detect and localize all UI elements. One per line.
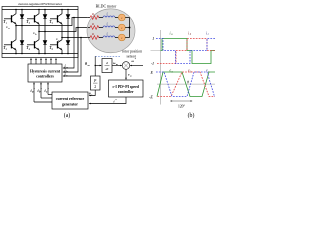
- wire T5 emitter to node c: [61, 24, 63, 38]
- svg-text:c: c: [208, 33, 210, 36]
- transistor T4: [27, 40, 39, 50]
- svg-text:R: R: [91, 22, 94, 26]
- diode D3: [44, 10, 46, 32]
- svg-text:m: m: [88, 64, 90, 67]
- svg-text:*: *: [135, 57, 137, 61]
- inverter enclosure box: [2, 7, 78, 58]
- wire to star point: [125, 17, 129, 19]
- svg-text:BLDC motor: BLDC motor: [96, 4, 117, 8]
- diode D2: [21, 26, 23, 54]
- DC bus positive rail: [2, 9, 78, 11]
- svg-text:4: 4: [29, 48, 31, 51]
- rotor position sensor dashed box: [95, 55, 121, 57]
- svg-text:*: *: [47, 87, 49, 91]
- svg-text:controller: controller: [118, 90, 134, 94]
- phase b wire to motor: [39, 28, 88, 32]
- wire: [115, 27, 118, 29]
- gate drive arrow 2: [35, 59, 37, 64]
- wire T2 emitter to -rail: [15, 50, 17, 54]
- speed controller box: [109, 80, 144, 97]
- wire T6 collector to node c: [61, 38, 63, 40]
- inductor Lc: [103, 36, 115, 38]
- resistor Ra: [90, 16, 99, 20]
- svg-text:3: 3: [29, 22, 31, 25]
- summer output wire: [125, 69, 127, 79]
- diode D1: [21, 10, 23, 26]
- node b dots: [38, 31, 40, 33]
- wire T1 emitter to node a: [15, 24, 17, 26]
- svg-text:L: L: [106, 31, 109, 35]
- current sensor tap c: [80, 37, 82, 39]
- svg-text:θ: θ: [187, 81, 189, 85]
- current plot zero axis stub: [151, 50, 161, 52]
- star point node dot: [129, 27, 131, 29]
- diode D6: [67, 38, 69, 54]
- wire T4 collector to node b: [38, 32, 40, 40]
- svg-text:c-I PD²-PI speed: c-I PD²-PI speed: [113, 85, 140, 89]
- wire: [99, 17, 103, 19]
- d/dt block: [102, 59, 112, 73]
- svg-text:current reference: current reference: [56, 97, 85, 101]
- svg-text:d: d: [106, 61, 108, 65]
- vertical axis: [160, 30, 162, 105]
- emf eb waveform (red dashed): [158, 72, 216, 97]
- emf ea waveform (green solid): [157, 72, 215, 97]
- svg-text:b: b: [35, 33, 37, 36]
- emf ec waveform (blue dashed): [156, 72, 215, 97]
- svg-text:b: b: [190, 33, 192, 36]
- wire T3 collector to +rail: [38, 10, 40, 14]
- back-EMF source eb: [118, 24, 125, 31]
- gate drive arrow 6: [55, 59, 57, 64]
- phase a wire to motor: [16, 18, 88, 26]
- wire into d/dt: [95, 65, 101, 67]
- svg-text:L: L: [106, 11, 109, 15]
- svg-text:m: m: [116, 63, 118, 66]
- inductor Lb: [103, 26, 115, 28]
- transistor T2: [4, 40, 16, 50]
- phase b branch wire: [88, 27, 90, 29]
- wire to star point: [125, 27, 129, 29]
- current ia waveform (green solid): [161, 39, 216, 64]
- emf horizontal axis: [157, 83, 215, 85]
- reference wire ic*: [47, 83, 49, 94]
- reference wire ib*: [40, 83, 42, 98]
- wire T3 emitter to node b: [38, 24, 40, 32]
- svg-text:-I: -I: [151, 61, 154, 66]
- wire d/dt to summer: [112, 65, 122, 67]
- summing junction: [122, 62, 130, 70]
- gate drive arrow 3: [40, 59, 42, 64]
- rail junction dots: [15, 9, 69, 55]
- wire T6 emitter to -rail: [61, 50, 63, 54]
- wire T2 collector to node a: [15, 26, 17, 40]
- gate drive arrow 4: [45, 59, 47, 64]
- diode D5: [67, 10, 69, 38]
- current ic waveform (blue dashed): [156, 39, 215, 64]
- wire T4 emitter to -rail: [38, 50, 40, 54]
- svg-text:(b): (b): [188, 112, 195, 119]
- phase c wire to motor: [62, 37, 88, 39]
- current ib waveform (red dashed): [157, 39, 215, 64]
- gate drive arrow 5: [50, 59, 52, 64]
- svg-text:R: R: [91, 32, 94, 36]
- transistor T6: [50, 40, 62, 50]
- svg-text:a: a: [171, 33, 173, 36]
- transistor T3: [27, 14, 39, 24]
- back-EMF source ec: [118, 34, 125, 41]
- svg-text:2: 2: [94, 85, 96, 89]
- svg-text:-E: -E: [149, 95, 153, 100]
- svg-text:Hysteresis current: Hysteresis current: [30, 70, 61, 74]
- wire T5 collector to +rail: [61, 10, 63, 14]
- svg-text:current-regulated PWM inverter: current-regulated PWM inverter: [18, 2, 63, 6]
- star point bus: [129, 18, 131, 38]
- sense wire ic: [63, 38, 81, 77]
- svg-text:rotor position: rotor position: [122, 50, 142, 54]
- current sensor tap a: [73, 17, 75, 19]
- DC bus negative rail: [2, 53, 78, 55]
- resistor Rc: [90, 36, 99, 40]
- transistor T5: [50, 14, 62, 24]
- wire: [115, 17, 118, 19]
- summing junction cross: [123, 63, 128, 68]
- svg-text:(a): (a): [64, 112, 71, 119]
- svg-text:ω: ω: [130, 75, 132, 78]
- gate drive arrow 1: [30, 59, 32, 64]
- reference wire ia*: [33, 83, 35, 102]
- node c dots: [61, 37, 63, 39]
- sense wire ib: [63, 28, 78, 73]
- inductor La: [103, 16, 115, 18]
- svg-text:I: I: [152, 36, 155, 41]
- svg-text:a: a: [8, 27, 10, 30]
- resistor Rb: [90, 26, 99, 30]
- hysteresis controller box: [28, 64, 62, 82]
- svg-text:*: *: [40, 87, 42, 91]
- sensor output wire: [94, 56, 96, 76]
- wire T1 collector to +rail: [15, 10, 17, 14]
- 120 degree annotation arrow: [171, 100, 193, 102]
- wire to star point: [125, 37, 129, 39]
- transistor T1: [4, 14, 16, 24]
- svg-text:generator: generator: [62, 102, 78, 106]
- wire: [99, 27, 103, 29]
- phase a branch wire: [88, 17, 90, 19]
- current sensor tap b: [77, 27, 79, 29]
- svg-text:120°: 120°: [178, 104, 186, 108]
- svg-text:6: 6: [52, 48, 54, 51]
- current reference generator box: [52, 92, 88, 109]
- wire: [99, 37, 103, 39]
- wire: [115, 37, 118, 39]
- sense wire ia: [63, 18, 74, 69]
- svg-text:5: 5: [52, 22, 54, 25]
- svg-text:L: L: [106, 21, 109, 25]
- svg-text:r: r: [91, 94, 92, 97]
- phase c branch wire: [88, 37, 90, 39]
- svg-text:E: E: [150, 70, 154, 75]
- node a dots: [15, 25, 17, 27]
- controller output wire: [89, 97, 126, 104]
- svg-text:c: c: [66, 73, 68, 77]
- svg-text:*: *: [115, 98, 117, 102]
- BLDC motor body: [87, 9, 135, 53]
- P/2 block: [91, 76, 101, 90]
- svg-text:2: 2: [6, 48, 8, 51]
- svg-text:*: *: [33, 87, 35, 91]
- omega* reference wire: [130, 65, 143, 67]
- P/2 output wire: [89, 90, 95, 96]
- diode D4: [44, 32, 46, 54]
- back-EMF source ea: [118, 14, 125, 21]
- svg-text:R: R: [91, 12, 94, 16]
- svg-text:controllers: controllers: [36, 75, 54, 79]
